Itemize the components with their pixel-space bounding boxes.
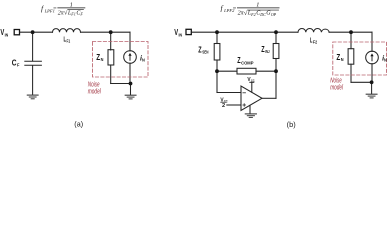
svg-text:1: 1 bbox=[70, 1, 73, 8]
svg-text:F: F bbox=[79, 12, 83, 17]
svg-text:N: N bbox=[142, 57, 145, 62]
svg-text:SEN: SEN bbox=[202, 50, 209, 55]
svg-text:2: 2 bbox=[222, 103, 225, 109]
svg-text:CC: CC bbox=[251, 79, 255, 83]
svg-text:IN: IN bbox=[5, 32, 9, 37]
svg-text:INJ: INJ bbox=[265, 49, 270, 54]
svg-text:(a): (a) bbox=[74, 119, 83, 128]
svg-text:Noise: Noise bbox=[88, 82, 100, 89]
svg-text:F1: F1 bbox=[67, 39, 71, 44]
svg-text:model: model bbox=[88, 89, 101, 96]
svg-text:OP: OP bbox=[271, 12, 277, 17]
svg-text:=: = bbox=[232, 5, 236, 12]
svg-text:F: F bbox=[17, 63, 20, 68]
svg-text:(b): (b) bbox=[287, 120, 296, 129]
svg-text:Noise: Noise bbox=[330, 77, 342, 84]
svg-text:DC: DC bbox=[259, 12, 266, 17]
svg-text:model: model bbox=[330, 84, 343, 91]
svg-text:F1: F1 bbox=[70, 12, 76, 17]
svg-text:F2: F2 bbox=[313, 40, 317, 45]
svg-text:=: = bbox=[53, 6, 57, 13]
svg-text:COMP: COMP bbox=[241, 60, 253, 65]
svg-text:N: N bbox=[384, 57, 387, 62]
svg-text:F2: F2 bbox=[250, 12, 256, 17]
svg-text:IN: IN bbox=[179, 32, 183, 37]
svg-text:1: 1 bbox=[256, 1, 259, 8]
